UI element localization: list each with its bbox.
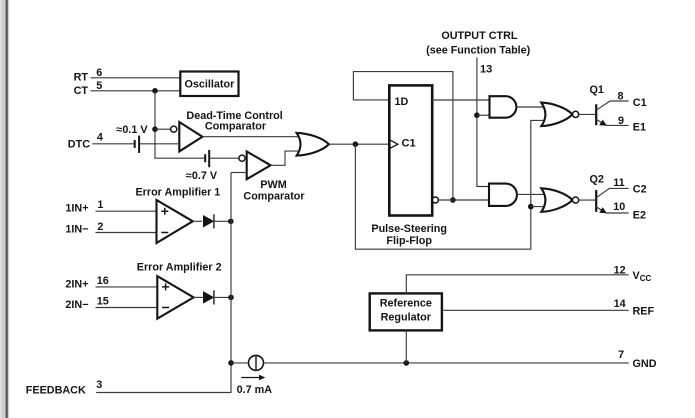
pin 11 C2 label xyxy=(613,177,646,196)
svg-text:(see Function Table): (see Function Table) xyxy=(426,45,531,57)
label OUTPUT CTRL xyxy=(426,30,531,57)
pin 14 REF label xyxy=(614,298,655,318)
svg-text:1IN+: 1IN+ xyxy=(65,203,88,215)
svg-text:E2: E2 xyxy=(633,209,646,221)
svg-text:REF: REF xyxy=(633,306,655,318)
wire NOR1 output to Q1 base xyxy=(579,113,596,115)
wire feedback bus vertical xyxy=(96,173,231,393)
pin RT label xyxy=(74,67,103,84)
wire regulator to GND xyxy=(405,330,407,363)
svg-text:Error Amplifier 1: Error Amplifier 1 xyxy=(135,186,220,198)
svg-text:Q2: Q2 xyxy=(590,173,604,185)
wire output ctrl pin 13 xyxy=(477,57,489,186)
svg-text:2IN−: 2IN− xyxy=(65,299,88,311)
svg-text:4: 4 xyxy=(97,132,103,144)
node Qbar feedback junction xyxy=(450,197,456,203)
pin FEEDBACK label xyxy=(26,379,102,396)
wire Qbar output to AND2 xyxy=(438,199,489,201)
pin 2IN- label xyxy=(65,296,108,311)
svg-text:Comparator: Comparator xyxy=(243,191,305,203)
node PWM signal junction xyxy=(353,141,359,147)
svg-text:Q1: Q1 xyxy=(590,84,604,96)
wire current source to GND pin xyxy=(264,362,629,364)
wire 2IN- xyxy=(96,307,158,309)
svg-text:Comparator: Comparator xyxy=(205,121,267,133)
flip-flop U8 pulse-steering xyxy=(389,85,432,215)
wire 1IN+ xyxy=(96,210,157,212)
svg-text:14: 14 xyxy=(614,298,626,310)
wire PWM node down and to NOR gates xyxy=(355,120,548,249)
svg-text:2IN+: 2IN+ xyxy=(65,279,88,291)
pin 7 GND label xyxy=(618,349,657,370)
label Dead-Time Control Comparator xyxy=(186,110,282,133)
wire sawtooth vertical from CT node xyxy=(155,91,205,158)
svg-text:0.7 mA: 0.7 mA xyxy=(237,384,273,396)
pin 10 E2 label xyxy=(613,201,646,221)
svg-text:1D: 1D xyxy=(395,96,409,108)
AND gate U4 xyxy=(490,96,517,118)
wire 1IN- xyxy=(96,232,157,234)
wire CT to oscillator xyxy=(91,90,182,92)
Qbar output bubble xyxy=(432,197,438,203)
pin DTC label xyxy=(68,132,103,151)
wire diode D2 to bus xyxy=(214,296,231,298)
wire OR gate output to flip-flop xyxy=(329,143,389,145)
svg-text:1: 1 xyxy=(97,199,103,211)
node CT junction xyxy=(152,88,158,94)
svg-text:7: 7 xyxy=(618,349,624,361)
pin CT label xyxy=(74,80,103,97)
op-amp U7 error amplifier 2 xyxy=(157,276,193,319)
wire PWM comparator lower input xyxy=(231,172,247,174)
wire DTC comparator output to OR gate xyxy=(202,136,299,138)
op-amp U1 dead-time comparator xyxy=(171,122,203,151)
transistor Q2 xyxy=(590,173,629,213)
svg-text:C1: C1 xyxy=(402,138,416,150)
wire Q output to AND1 xyxy=(432,99,489,101)
pin 1IN- label xyxy=(65,221,103,236)
svg-text:Reference: Reference xyxy=(380,298,432,310)
svg-text:≈0.7 V: ≈0.7 V xyxy=(186,170,218,182)
label PWM Comparator xyxy=(243,179,305,203)
svg-text:Flip-Flop: Flip-Flop xyxy=(386,235,432,247)
wire EA2 output to diode xyxy=(194,296,203,298)
pin 8 C1 label xyxy=(618,90,647,109)
transistor Q1 xyxy=(590,84,629,125)
wire node to NOR2 lower input xyxy=(531,206,548,208)
wire diode D1 to bus xyxy=(213,220,231,222)
wire NOR2 output to Q2 base xyxy=(579,199,596,201)
svg-text:C2: C2 xyxy=(633,183,647,195)
wire EA1 output to diode xyxy=(193,220,202,222)
svg-text:13: 13 xyxy=(480,64,492,76)
svg-text:FEEDBACK: FEEDBACK xyxy=(26,384,86,396)
wire node to DTC bubble xyxy=(155,128,170,130)
svg-text:E1: E1 xyxy=(633,122,646,134)
oscillator box xyxy=(180,72,238,97)
pin 2IN+ label xyxy=(65,275,108,291)
svg-text:Pulse-Steering: Pulse-Steering xyxy=(371,223,447,235)
node GND junction xyxy=(404,360,410,366)
node current source junction xyxy=(228,360,234,366)
wire D input feedback loop xyxy=(353,72,453,200)
wire bus to current source xyxy=(231,362,249,364)
wire battery to PWM bubble xyxy=(209,157,239,159)
op-amp U6 error amplifier 1 xyxy=(157,200,193,243)
svg-text:2: 2 xyxy=(97,221,103,233)
svg-text:CT: CT xyxy=(74,85,89,97)
OR gate U3 xyxy=(297,133,329,156)
svg-text:Oscillator: Oscillator xyxy=(184,79,235,91)
diode D2 xyxy=(204,290,214,304)
svg-text:8: 8 xyxy=(618,90,624,102)
svg-text:6: 6 xyxy=(96,67,102,79)
wire PWM comparator output to OR gate xyxy=(271,151,300,165)
current source CS1 0.7mA xyxy=(237,355,273,396)
svg-text:1IN−: 1IN− xyxy=(65,223,88,235)
op-amp U2 PWM comparator xyxy=(239,152,271,180)
pin 12 Vcc label xyxy=(614,264,652,283)
svg-text:Error Amplifier 2: Error Amplifier 2 xyxy=(137,262,222,274)
reference regulator box xyxy=(370,293,442,330)
svg-text:≈0.1 V: ≈0.1 V xyxy=(116,124,148,136)
svg-text:DTC: DTC xyxy=(68,138,90,150)
svg-text:16: 16 xyxy=(97,275,109,287)
svg-text:C1: C1 xyxy=(633,97,647,109)
svg-text:10: 10 xyxy=(613,201,625,213)
svg-text:GND: GND xyxy=(633,358,657,370)
NOR gate U5 xyxy=(541,103,578,127)
svg-text:PWM: PWM xyxy=(260,179,286,191)
wire 2IN+ xyxy=(96,286,158,288)
AND gate U9 xyxy=(489,184,517,206)
node EA2 output junction xyxy=(228,295,234,301)
node EA1 output junction xyxy=(228,219,234,225)
NOR gate U10 xyxy=(541,188,578,212)
node NOR2 branch xyxy=(528,204,534,210)
svg-text:RT: RT xyxy=(74,72,89,84)
wire AND2 output to NOR2 xyxy=(517,193,548,195)
wire RT to oscillator xyxy=(91,77,182,79)
wire node to AND1 lower input xyxy=(477,114,490,116)
label Pulse-Steering Flip-Flop xyxy=(371,223,447,247)
wire REF xyxy=(442,309,629,311)
wire AND1 output to NOR1 xyxy=(516,106,548,108)
wire battery to DTC comparator xyxy=(139,143,179,145)
wire DTC to battery xyxy=(92,143,134,145)
node sawtooth to DTC comparator xyxy=(152,126,158,132)
pin 9 E1 label xyxy=(618,115,646,134)
wire Vcc xyxy=(406,275,628,294)
battery B2 0.7V xyxy=(205,150,209,167)
svg-text:11: 11 xyxy=(613,177,624,189)
svg-text:12: 12 xyxy=(614,264,626,276)
svg-text:15: 15 xyxy=(97,296,109,308)
battery B1 0.1V xyxy=(135,136,139,153)
svg-text:Regulator: Regulator xyxy=(381,312,432,324)
svg-text:9: 9 xyxy=(618,115,624,127)
svg-text:OUTPUT CTRL: OUTPUT CTRL xyxy=(441,30,518,42)
node pin13 to AND1 xyxy=(474,112,480,118)
pin 1IN+ label xyxy=(65,199,103,215)
svg-text:3: 3 xyxy=(96,379,102,391)
diode D1 xyxy=(204,214,214,228)
